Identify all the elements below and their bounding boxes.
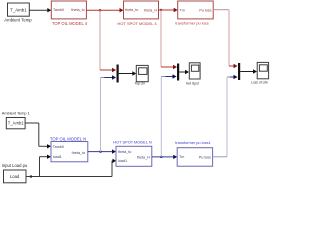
svg-text:Tm: Tm <box>179 155 184 159</box>
wire mux3 to scope Loss of Life <box>240 69 257 73</box>
block HOT SPOT MODEL N <box>113 139 152 166</box>
svg-text:Tamb0: Tamb0 <box>53 145 64 149</box>
svg-text:theta_to: theta_to <box>72 151 85 155</box>
scope Hot Spot <box>186 63 200 86</box>
mux Mux2 <box>177 64 179 81</box>
svg-text:Pu loss: Pu loss <box>199 155 211 159</box>
svg-text:T_Amb1: T_Amb1 <box>8 121 24 126</box>
svg-text:HOT SPOT MODEL N: HOT SPOT MODEL N <box>113 139 152 144</box>
mux Mux3 <box>238 63 240 80</box>
wire branch theta_to4 down to mux1 <box>100 10 116 72</box>
svg-text:Ambient Temp: Ambient Temp <box>4 17 32 22</box>
wire TOP OIL MODEL 4 to HOT SPOT MODEL 4 <box>86 8 123 12</box>
svg-text:Loss of Life: Loss of Life <box>251 80 268 84</box>
svg-text:T_Amb1: T_Amb1 <box>10 7 27 12</box>
wire mux3 blue input from pu loss1 <box>227 75 238 79</box>
junction node theta_toN <box>99 150 102 153</box>
wire mux1 to scope Top Oil <box>119 71 137 75</box>
wire TOP OIL MODEL N to HOT SPOT MODEL N <box>88 149 116 153</box>
svg-text:Hot Spot: Hot Spot <box>186 81 199 85</box>
svg-text:load1: load1 <box>118 159 127 163</box>
scope Loss of Life <box>251 62 269 84</box>
svg-text:load1: load1 <box>53 155 62 159</box>
source T_Amb1 (Ambient Temp) <box>4 3 32 22</box>
svg-text:TOP OIL MODEL N: TOP OIL MODEL N <box>50 136 86 141</box>
wire branch theta_H4 down to mux2 <box>161 10 177 69</box>
wire HOT SPOT MODEL 4 to transformer pu loss <box>159 8 178 12</box>
svg-text:theta_to: theta_to <box>71 8 84 12</box>
svg-text:HOT SPOT MODEL 4: HOT SPOT MODEL 4 <box>117 21 157 26</box>
block transformer pu loss1 <box>175 140 212 166</box>
wire transformer pu loss1 up to mux3 <box>213 77 227 157</box>
svg-text:TOP OIL MODEL 4: TOP OIL MODEL 4 <box>52 21 88 26</box>
svg-text:Tm: Tm <box>180 8 185 12</box>
svg-text:Top Oil: Top Oil <box>134 82 145 86</box>
wire T_Amb1(1) to TOP OIL MODEL N Tamb0 <box>25 123 51 149</box>
wire HOT SPOT MODEL N to transformer pu loss1 <box>152 155 177 159</box>
wire mux2 blue input from theta_HN <box>161 74 176 78</box>
svg-text:transformer pu loss1: transformer pu loss1 <box>175 140 210 145</box>
junction node theta_to4 <box>99 9 102 12</box>
svg-text:theta_H: theta_H <box>144 8 157 12</box>
svg-text:Tamb0: Tamb0 <box>53 8 64 12</box>
source Load (Input Load pu) <box>2 163 28 183</box>
block TOP OIL MODEL N <box>50 136 88 161</box>
svg-text:transformer pu loss: transformer pu loss <box>175 21 208 26</box>
svg-text:theta_to: theta_to <box>118 150 131 154</box>
svg-text:theta_to: theta_to <box>125 8 138 12</box>
wire Load to load1 inputs <box>26 155 116 178</box>
mux Mux1 <box>117 65 119 83</box>
wire branch theta_HN up to mux2 <box>160 77 162 157</box>
scope Top Oil <box>134 65 148 85</box>
wire mux2 to scope Hot Spot <box>179 70 189 74</box>
wire mux1 blue input from theta_toN <box>101 75 117 79</box>
junction node theta_H4 <box>160 9 163 12</box>
svg-text:theta_H: theta_H <box>137 155 150 159</box>
junction node theta_HN <box>160 156 163 159</box>
wire transformer pu loss down to mux3 <box>213 10 237 68</box>
source T_Amb1 (Ambient Temp 1) <box>2 110 30 128</box>
wire T_Amb1 to TOP OIL MODEL 4 <box>29 8 51 12</box>
svg-text:Pu loss: Pu loss <box>199 8 211 12</box>
wire branch theta_toN up to mux1 <box>100 78 102 152</box>
svg-text:Input Load pu: Input Load pu <box>2 163 28 168</box>
svg-text:Ambient Temp 1: Ambient Temp 1 <box>2 110 30 115</box>
block TOP OIL MODEL 4 <box>51 1 87 26</box>
block HOT SPOT MODEL 4 <box>117 1 158 26</box>
block transformer pu loss <box>175 1 213 26</box>
svg-text:Load: Load <box>10 174 20 179</box>
